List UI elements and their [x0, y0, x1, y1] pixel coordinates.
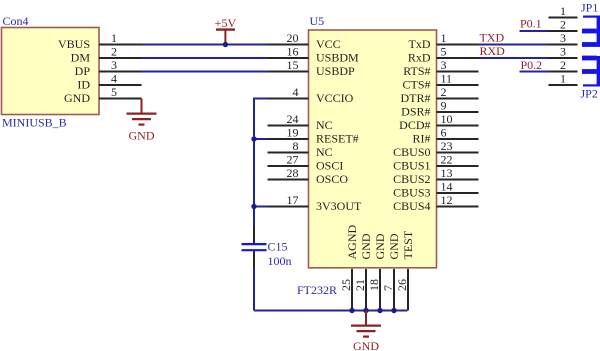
svg-text:8: 8 [293, 139, 299, 153]
svg-text:CBUS1: CBUS1 [393, 159, 430, 173]
svg-text:27: 27 [287, 153, 299, 167]
svg-text:AGND: AGND [345, 225, 359, 260]
svg-text:1: 1 [560, 4, 566, 18]
svg-text:OSCO: OSCO [316, 172, 348, 186]
svg-text:18: 18 [367, 279, 381, 291]
svg-text:GND: GND [129, 128, 155, 142]
svg-text:CBUS3: CBUS3 [393, 186, 430, 200]
svg-text:1: 1 [441, 31, 447, 45]
svg-text:DM: DM [71, 51, 91, 65]
svg-text:17: 17 [287, 193, 299, 207]
svg-text:3: 3 [560, 45, 566, 59]
svg-text:P0.1: P0.1 [520, 16, 542, 30]
svg-text:25: 25 [339, 279, 353, 291]
svg-text:DSR#: DSR# [401, 105, 430, 119]
svg-text:NC: NC [316, 118, 333, 132]
svg-text:19: 19 [287, 126, 299, 140]
svg-text:2: 2 [111, 45, 117, 59]
svg-text:RI#: RI# [413, 132, 431, 146]
svg-text:23: 23 [441, 139, 453, 153]
svg-text:CBUS2: CBUS2 [393, 172, 430, 186]
svg-text:NC: NC [316, 145, 333, 159]
svg-text:TxD: TxD [409, 37, 431, 51]
svg-text:RxD: RxD [408, 51, 431, 65]
svg-text:4: 4 [293, 85, 299, 99]
svg-text:15: 15 [287, 58, 299, 72]
svg-text:3V3OUT: 3V3OUT [316, 199, 362, 213]
svg-text:22: 22 [441, 153, 453, 167]
svg-text:2: 2 [560, 58, 566, 72]
svg-text:VCCIO: VCCIO [316, 91, 354, 105]
svg-text:USBDP: USBDP [316, 64, 355, 78]
svg-text:6: 6 [441, 126, 447, 140]
svg-text:2: 2 [560, 18, 566, 32]
svg-text:26: 26 [395, 279, 409, 291]
svg-text:16: 16 [287, 45, 299, 59]
svg-text:GND: GND [353, 339, 379, 351]
svg-text:3: 3 [441, 58, 447, 72]
svg-text:USBDM: USBDM [316, 51, 359, 65]
svg-text:7: 7 [381, 285, 395, 291]
svg-text:GND: GND [373, 233, 387, 259]
svg-text:DCD#: DCD# [399, 118, 430, 132]
svg-text:5: 5 [441, 45, 447, 59]
svg-text:TXD: TXD [480, 31, 505, 45]
svg-text:GND: GND [359, 233, 373, 259]
svg-text:FT232R: FT232R [297, 283, 337, 297]
svg-text:2: 2 [441, 85, 447, 99]
svg-text:12: 12 [441, 193, 453, 207]
svg-text:CBUS0: CBUS0 [393, 145, 430, 159]
svg-text:RTS#: RTS# [403, 64, 430, 78]
svg-text:RXD: RXD [480, 44, 506, 58]
svg-text:100n: 100n [268, 254, 292, 268]
svg-text:3: 3 [111, 58, 117, 72]
svg-text:JP2: JP2 [581, 87, 598, 101]
svg-text:VCC: VCC [316, 37, 341, 51]
svg-text:JP1: JP1 [581, 0, 598, 14]
svg-text:CBUS4: CBUS4 [393, 199, 430, 213]
svg-text:U5: U5 [310, 14, 325, 28]
svg-text:3: 3 [560, 31, 566, 45]
svg-text:9: 9 [441, 99, 447, 113]
svg-text:VBUS: VBUS [58, 37, 90, 51]
svg-text:OSCI: OSCI [316, 159, 343, 173]
svg-text:24: 24 [287, 112, 299, 126]
svg-text:14: 14 [441, 180, 453, 194]
svg-text:1: 1 [560, 72, 566, 86]
svg-text:GND: GND [64, 91, 90, 105]
svg-text:4: 4 [111, 72, 117, 86]
svg-text:20: 20 [287, 31, 299, 45]
svg-text:28: 28 [287, 166, 299, 180]
svg-text:CTS#: CTS# [402, 78, 430, 92]
svg-text:1: 1 [111, 31, 117, 45]
svg-text:21: 21 [353, 279, 367, 291]
svg-text:ID: ID [77, 78, 90, 92]
svg-text:10: 10 [441, 112, 453, 126]
svg-text:13: 13 [441, 166, 453, 180]
svg-text:TEST: TEST [401, 230, 415, 259]
svg-text:GND: GND [387, 233, 401, 259]
svg-text:C15: C15 [268, 239, 288, 253]
svg-text:Con4: Con4 [3, 14, 29, 28]
svg-text:5: 5 [111, 85, 117, 99]
svg-text:MINIUSB_B: MINIUSB_B [2, 116, 67, 130]
svg-text:+5V: +5V [215, 16, 237, 30]
svg-text:P0.2: P0.2 [521, 58, 543, 72]
svg-text:11: 11 [441, 72, 453, 86]
svg-text:DTR#: DTR# [401, 91, 431, 105]
svg-text:RESET#: RESET# [316, 132, 359, 146]
svg-text:DP: DP [75, 64, 91, 78]
